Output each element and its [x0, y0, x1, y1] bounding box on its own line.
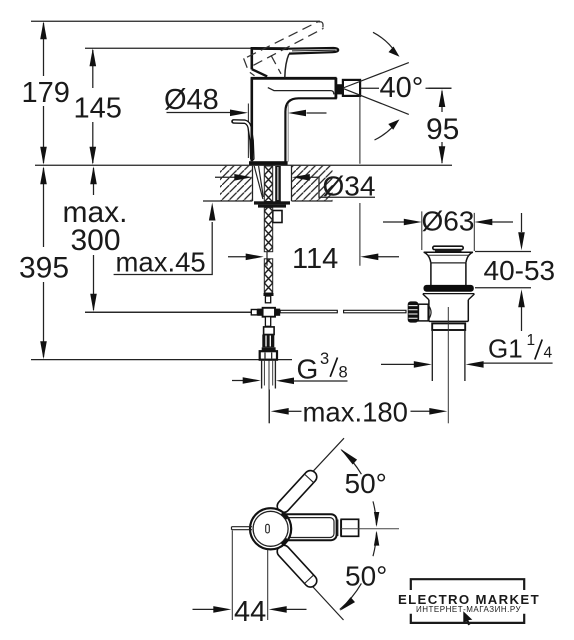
node spout arm top view	[272, 514, 337, 540]
node lower hose tube below cross	[265, 317, 270, 327]
node 145 dimension	[74, 48, 122, 165]
node handle lever up position	[275, 468, 320, 515]
node cursor arrow	[463, 611, 472, 625]
svg-text:114: 114	[292, 243, 338, 275]
node 50deg arc upper	[340, 449, 387, 527]
wire rod in hose gap	[266, 252, 268, 266]
svg-text:50°: 50°	[345, 468, 387, 499]
node flange under oring	[423, 293, 475, 295]
wire dia48 extension line	[247, 104, 249, 159]
wire handle-top reference line	[85, 47, 251, 49]
node hose collar	[264, 293, 274, 296]
node drain groove section	[432, 323, 465, 330]
node deck hatch left	[203, 166, 253, 201]
node 40-53 dimension	[475, 213, 555, 331]
node side connector block	[273, 211, 282, 223]
svg-text:1: 1	[527, 332, 536, 349]
svg-text:8: 8	[339, 364, 348, 382]
node dia34 label	[215, 171, 375, 202]
wire 50deg line lower	[277, 548, 344, 620]
node dia48 label and arrows	[164, 84, 327, 116]
wire spray cone lower	[343, 88, 409, 114]
node flexible hose upper	[264, 208, 272, 252]
node 114 dimension	[228, 243, 399, 275]
wire 395 reference line	[31, 359, 292, 361]
svg-text:95: 95	[426, 113, 459, 146]
wire max300 reference line	[85, 311, 251, 313]
node G38 label	[232, 350, 348, 385]
node deck hatch right	[292, 166, 333, 201]
node logo bottom bracket	[411, 614, 524, 623]
svg-text:395: 395	[19, 252, 69, 285]
svg-text:3: 3	[320, 350, 329, 368]
svg-text:max.180: max.180	[303, 397, 408, 428]
node aerator joint	[337, 84, 343, 94]
node 40 deg label leaders	[361, 87, 452, 89]
svg-text:Ø48: Ø48	[164, 84, 219, 116]
wire drain centerline	[447, 307, 449, 380]
node base plate	[249, 161, 288, 165]
svg-text:40-53: 40-53	[484, 255, 556, 286]
node G114 label	[381, 332, 553, 368]
wire top reference line	[31, 20, 320, 22]
node max300 dimension	[63, 166, 128, 312]
node dia63 dimension	[383, 206, 513, 252]
node handle lever down position	[275, 543, 320, 590]
svg-text:300: 300	[71, 224, 121, 257]
node popup rod front	[234, 121, 253, 158]
svg-text:max.45: max.45	[116, 247, 206, 278]
node pull rod left segment	[280, 310, 337, 313]
node logo top bracket	[411, 579, 524, 590]
node 179 dimension	[22, 21, 70, 165]
node drain tailpipe	[432, 330, 465, 381]
node faucet body outline	[251, 78, 337, 162]
node drain body	[423, 294, 475, 321]
node 40 degree arc arrows	[373, 32, 400, 140]
svg-text:145: 145	[74, 93, 122, 125]
node body circle top view	[250, 508, 291, 549]
wire aerator projection line	[359, 96, 361, 266]
svg-text:ИНТЕРНЕТ-МАГАЗИН.РУ: ИНТЕРНЕТ-МАГАЗИН.РУ	[416, 605, 522, 614]
wire spray cone upper	[343, 63, 409, 88]
node 44 dimension	[193, 531, 307, 629]
node pull rod right segment	[344, 310, 406, 313]
node 95 dimension	[426, 88, 460, 164]
node shank in hole	[254, 166, 281, 202]
node hose end flange	[262, 347, 276, 351]
node popup waste neck	[431, 263, 466, 285]
node max45 label	[114, 203, 216, 278]
node hose tube to cross	[265, 296, 270, 303]
svg-text:179: 179	[22, 77, 70, 109]
wire centerline bottom view	[341, 528, 399, 530]
wire 50deg line upper	[276, 438, 344, 511]
svg-text:G: G	[297, 354, 319, 385]
node flexible hose lower	[264, 259, 272, 293]
svg-text:50°: 50°	[345, 561, 387, 592]
node 50deg arc lower	[340, 531, 388, 611]
node max180 dimension	[270, 380, 449, 428]
node drain knob	[408, 301, 431, 322]
node G38 nut	[260, 351, 277, 360]
svg-text:40°: 40°	[380, 72, 424, 104]
node hose end ridged block	[262, 335, 274, 348]
node hose end collar	[264, 327, 275, 335]
wire deck surface line	[35, 164, 452, 166]
node mounting washer and nut	[254, 201, 290, 204]
node cross fitting	[85, 308, 280, 317]
node aerator top view	[338, 519, 359, 536]
node oring seal band	[424, 285, 474, 292]
node popup waste cap	[433, 246, 463, 252]
node G38 thread tube	[262, 360, 276, 389]
node lever raised dashed	[244, 21, 324, 75]
node popup waste flange	[424, 252, 473, 263]
svg-text:Ø63: Ø63	[422, 206, 475, 237]
svg-text:G1: G1	[488, 334, 523, 364]
node handle block solid	[251, 48, 289, 77]
svg-text:44: 44	[234, 596, 266, 628]
svg-text:Ø34: Ø34	[323, 171, 376, 202]
node popup rod top view	[232, 527, 253, 530]
node lever solid	[288, 48, 338, 54]
node aerator box	[343, 80, 360, 96]
svg-text:4: 4	[544, 345, 553, 362]
node 395 dimension	[19, 166, 69, 359]
wire hose centerline	[268, 361, 270, 424]
